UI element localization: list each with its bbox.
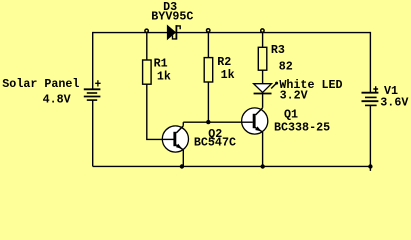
battery B1 Solar Panel symbol [84, 89, 101, 100]
svg-text:1k: 1k [157, 70, 171, 84]
wire Q2 collector vertical [182, 122, 184, 126]
node Q1 emitter junction [261, 164, 265, 168]
svg-text:1k: 1k [221, 68, 235, 82]
transistor Q2 [162, 126, 188, 152]
wire left vertical upper [92, 32, 94, 89]
svg-text:R1: R1 [154, 57, 168, 71]
svg-text:R3: R3 [271, 43, 285, 57]
wire LED to Q1 collector [262, 94, 264, 108]
svg-text:BYV95C: BYV95C [151, 10, 193, 24]
svg-text:BC338-25: BC338-25 [274, 120, 330, 134]
wire Q1 emitter to bottom rail [262, 132, 264, 166]
wire R1 bottom to Q2 base [147, 84, 174, 139]
resistor R2 [204, 58, 213, 82]
wire top rail [93, 32, 371, 34]
wire R2 bottom [207, 82, 209, 122]
svg-text:Solar Panel: Solar Panel [2, 77, 79, 91]
wire left vertical lower [92, 100, 94, 166]
node R1 top junction [145, 29, 148, 32]
plus sign V1 [373, 86, 378, 92]
resistor R3 [258, 47, 267, 70]
wire Q2 emitter to bottom rail [182, 150, 184, 167]
node R2 top junction [207, 29, 210, 32]
svg-text:3.6V: 3.6V [380, 96, 408, 110]
node V1 bottom junction [368, 164, 372, 168]
wire R1 top [146, 33, 148, 60]
LED D1 White LED [254, 82, 279, 94]
node R3 top junction [261, 29, 264, 32]
svg-text:4.8V: 4.8V [43, 92, 71, 106]
svg-text:3.2V: 3.2V [280, 88, 308, 102]
transistor Q1 [242, 108, 268, 134]
svg-text:82: 82 [279, 60, 293, 74]
wire R3 to LED [262, 70, 264, 84]
diode D3 [167, 25, 180, 39]
node R2 bottom junction [206, 120, 210, 124]
wire R3 top [262, 33, 264, 48]
node Q2 emitter junction [180, 164, 184, 168]
wire R2 top [207, 33, 209, 58]
plus sign solar panel [95, 80, 100, 86]
wire bottom rail [93, 165, 371, 167]
wire right vertical lower [369, 105, 371, 170]
svg-text:BC547C: BC547C [194, 136, 236, 150]
wire Q2 collector to Q1 base [183, 121, 253, 123]
resistor R1 [143, 60, 152, 84]
battery V1 symbol [362, 93, 379, 106]
wire right vertical upper [369, 32, 371, 93]
